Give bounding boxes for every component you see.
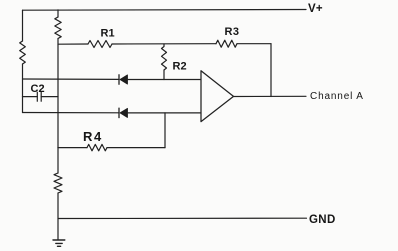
label R3	[225, 26, 240, 38]
wire main vertical rail to ground line	[57, 193, 59, 240]
wire R2 lower lead (down to non-inverting input line)	[163, 70, 165, 80]
resistor (no designator, bottom of main vertical rail)	[54, 173, 62, 193]
wire main vertical rail middle (resistor to R4 line)	[57, 39, 59, 148]
wire capacitor branch right lead (to main rail)	[41, 96, 58, 98]
svg-text:R2: R2	[173, 61, 187, 73]
label C2	[31, 83, 45, 95]
resistor R3	[216, 40, 237, 47]
diode (lower, no designator, cathode bar left, pointing left)	[119, 108, 128, 117]
node GND	[309, 214, 336, 226]
capacitor C2	[37, 92, 41, 101]
resistor R2	[162, 44, 167, 70]
wire capacitor branch left lead	[23, 96, 38, 98]
resistor (no designator, left branch)	[20, 41, 26, 64]
resistor (no designator, top of main vertical rail)	[55, 17, 61, 39]
label R1	[101, 28, 115, 40]
op-amp (no designator)	[201, 71, 234, 122]
wire left vertical branch (x=22.5, V+ rail down to resistor)	[22, 10, 24, 41]
wire inverting input line (diode to op-amp)	[128, 112, 202, 114]
label R4	[83, 129, 103, 144]
wire feedback vertical (down to op-amp output node)	[270, 44, 272, 97]
node Channel A	[310, 91, 364, 102]
wire non-inverting input line (left part, to diode)	[23, 78, 120, 80]
wire V+ top rail	[23, 9, 307, 12]
svg-text:C2: C2	[31, 83, 45, 95]
svg-text:V+: V+	[308, 3, 323, 15]
svg-text:Channel A: Channel A	[310, 91, 364, 102]
wire main vertical rail lower (R4 line to bottom resistor)	[57, 148, 59, 173]
ground symbol	[53, 240, 65, 246]
wire feedback rail left segment (from main rail to R1)	[58, 43, 88, 45]
wire main vertical rail upper (x=58, V+ rail to resistor)	[57, 10, 59, 17]
svg-text:R3: R3	[225, 26, 240, 38]
wire R4 line right segment (R4 to vertical riser)	[107, 147, 165, 149]
wire R4 line left segment (main rail to R4)	[58, 147, 87, 149]
wire left vertical branch lower (resistor to inverting input line)	[22, 64, 24, 113]
node V+	[308, 3, 323, 15]
wire non-inverting input line (diode to op-amp)	[128, 79, 202, 81]
svg-text:R4: R4	[83, 129, 103, 144]
resistor R1	[88, 41, 112, 48]
wire vertical from inverting input line down to R4 line	[164, 113, 166, 148]
wire feedback rail middle segment (R1 to R3, junction with R2 at x=164)	[112, 43, 216, 45]
svg-text:R1: R1	[101, 28, 115, 40]
diode (upper, no designator, cathode bar left, pointing left)	[119, 75, 128, 84]
svg-text:GND: GND	[309, 214, 336, 226]
wire op-amp output line	[234, 95, 307, 97]
wire ground rail	[58, 217, 307, 219]
wire feedback rail right corner segment	[237, 43, 271, 45]
wire inverting input line (left part, to diode)	[23, 112, 120, 114]
label R2	[173, 61, 187, 73]
resistor R4	[87, 144, 107, 150]
